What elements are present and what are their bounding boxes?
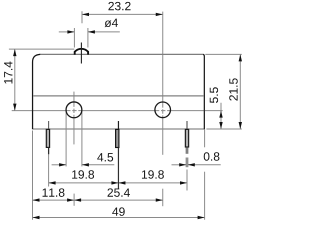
dim 19.8 right line [118,182,187,184]
dim 23.2 line [82,13,163,15]
extension: body right edge down (upper segment) [204,129,206,147]
centerline of left hole (vertical) [73,92,75,103]
arrows 19.8 right [118,181,125,184]
label 19.8 left [72,170,94,179]
label 21.5 (rotated) [229,78,238,100]
extension stub of left hole at 11.8/25.4 row [73,194,75,206]
label 5.5 (rotated) [210,87,218,103]
extension: body top right to 21.5 dim [205,53,242,55]
plunger (button) dome [75,49,88,55]
arrows 23.2 [82,13,89,16]
label 23.2 [108,2,130,11]
mounting hole left [66,102,82,118]
arrowheads [13,13,242,220]
arrows 19.8 left [49,181,56,184]
terminal left [46,121,49,154]
extension of right terminal down to 19.8 row [186,170,188,191]
body left edge with rounded top-left corner (dark) [33,54,41,129]
dim 19.8 left line [49,182,119,184]
dim 5.5 line [220,103,222,129]
extension tangents of left hole for 4.5 [65,112,67,167]
arrows 49 [33,216,40,219]
arrows 17.4 [13,49,16,56]
extension stub at left end of 23.2 [81,11,83,23]
dim 25.4 line [74,199,163,201]
extension line 17.4 top (plunger top) [9,48,74,50]
extension: body left edge down to 49 dim [32,131,34,220]
label 4.5 [97,153,113,161]
inner horizontal line of body [33,95,204,97]
extension of left terminal down to 19.8 row [48,147,50,186]
label 11.8 [43,188,65,197]
label 17.4 (rotated) [4,61,12,83]
dim 49 line [33,217,205,219]
dim 17.4 line [14,49,16,111]
body top edge (grey) [40,53,204,55]
label 0.8 [204,152,220,161]
arrows 0.8 (outside pair) [179,163,186,166]
label ø4 [105,19,118,27]
label 25.4 [108,188,130,197]
body right edge (dark) [203,54,204,129]
dim 0.8 tails [172,164,187,166]
grey dimension / extension linework [9,11,242,219]
terminal middle [116,121,119,189]
centerline of right hole (vertical, from 23.2 dim down) [162,12,164,104]
dim 4.5 tails [52,164,67,166]
label 49 [112,207,125,216]
arrows 11.8 [33,198,40,201]
centerline row through holes (horizontal) [12,110,66,112]
arrows 4.5 (outside pair) [59,163,66,166]
extension: body right edge down (lower segment) [204,172,206,220]
arrows 21.5 [239,54,242,61]
dim 11.8 line [33,199,75,201]
arrows 25.4 [74,198,81,201]
dim 21.5 line [239,54,241,129]
plunger centerline [80,43,82,64]
extension stubs for ø4 (plunger sides) [73,28,75,48]
extension stub of right hole at 25.4 row [162,189,164,207]
body bottom edge (grey) [33,128,204,130]
mounting hole right [155,102,171,118]
arrows 5.5 [219,111,222,118]
dim ø4 tails [59,31,75,33]
extension: body bottom right to 21.5 dim [206,128,241,130]
terminal right [185,121,188,167]
label 19.8 right [142,170,164,179]
arrows ø4 (outside pair) [67,30,74,33]
